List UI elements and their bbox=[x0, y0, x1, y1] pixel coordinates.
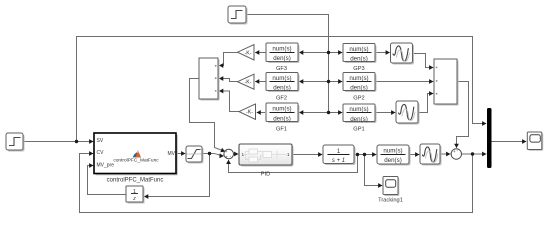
svg-text:controlPFC_MatFunc: controlPFC_MatFunc bbox=[113, 157, 159, 163]
svg-text:-K-: -K- bbox=[245, 50, 252, 56]
svg-text:num(s): num(s) bbox=[272, 45, 291, 52]
svg-text:GP1: GP1 bbox=[353, 126, 364, 132]
svg-text:den(s): den(s) bbox=[384, 157, 402, 164]
svg-text:1: 1 bbox=[133, 189, 136, 195]
svg-text:+: + bbox=[226, 155, 229, 160]
svg-text:MV_pre: MV_pre bbox=[97, 162, 115, 168]
svg-text:CV: CV bbox=[97, 150, 105, 156]
svg-text:GF3: GF3 bbox=[276, 66, 287, 72]
svg-text:num(s): num(s) bbox=[383, 147, 402, 154]
svg-text:num(s): num(s) bbox=[349, 75, 368, 82]
svg-text:GP2: GP2 bbox=[353, 95, 364, 101]
svg-text:-K-: -K- bbox=[245, 80, 252, 86]
svg-text:den(s): den(s) bbox=[350, 116, 368, 123]
svg-text:num(s): num(s) bbox=[272, 75, 291, 82]
svg-text:num(s): num(s) bbox=[349, 46, 368, 53]
svg-text:-K-: -K- bbox=[246, 110, 253, 116]
svg-text:den(s): den(s) bbox=[350, 85, 368, 92]
svg-text:den(s): den(s) bbox=[350, 56, 368, 63]
svg-text:1: 1 bbox=[287, 152, 290, 157]
svg-text:controlPFC_MatFunc: controlPFC_MatFunc bbox=[107, 177, 164, 183]
svg-text:den(s): den(s) bbox=[273, 85, 291, 92]
svg-text:z: z bbox=[132, 196, 136, 202]
svg-text:s + 1: s + 1 bbox=[332, 158, 345, 164]
svg-text:SV: SV bbox=[97, 138, 104, 144]
svg-text:den(s): den(s) bbox=[273, 115, 291, 122]
svg-text:1: 1 bbox=[242, 152, 245, 157]
svg-text:den(s): den(s) bbox=[273, 55, 291, 62]
svg-text:GP3: GP3 bbox=[353, 66, 364, 72]
svg-text:MV: MV bbox=[168, 151, 176, 157]
svg-text:GF2: GF2 bbox=[276, 95, 287, 101]
svg-text:+: + bbox=[225, 149, 228, 154]
svg-text:PID: PID bbox=[261, 171, 270, 177]
svg-text:num(s): num(s) bbox=[272, 106, 291, 113]
svg-text:GF1: GF1 bbox=[276, 126, 287, 132]
svg-text:Tracking1: Tracking1 bbox=[378, 197, 403, 203]
